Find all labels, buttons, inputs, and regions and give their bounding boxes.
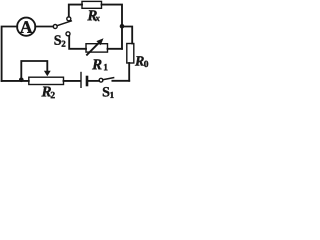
svg-text:2: 2 (61, 39, 66, 49)
svg-text:1: 1 (103, 63, 108, 73)
svg-text:A: A (20, 17, 33, 37)
svg-text:R: R (134, 55, 144, 70)
svg-text:R: R (91, 57, 102, 73)
svg-text:0: 0 (144, 60, 149, 70)
svg-text:2: 2 (50, 91, 55, 101)
svg-text:x: x (94, 13, 100, 23)
svg-text:1: 1 (110, 90, 115, 100)
